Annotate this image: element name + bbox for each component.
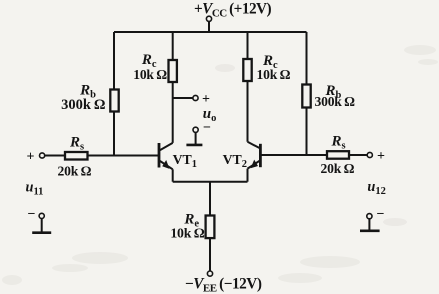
svg-text:−: −: [28, 207, 36, 222]
svg-text:10k Ω: 10k Ω: [257, 67, 291, 82]
svg-text:+VCC (+12V): +VCC (+12V): [194, 0, 272, 19]
svg-text:300k Ω: 300k Ω: [315, 94, 356, 109]
svg-text:−: −: [377, 207, 385, 222]
svg-text:+: +: [27, 149, 35, 164]
svg-text:+: +: [202, 92, 210, 107]
svg-text:20k Ω: 20k Ω: [321, 161, 355, 176]
svg-text:20k Ω: 20k Ω: [58, 163, 92, 178]
svg-text:10k Ω: 10k Ω: [133, 67, 167, 82]
svg-text:+: +: [377, 149, 385, 164]
svg-text:300k Ω: 300k Ω: [61, 97, 105, 113]
svg-text:−: −: [203, 121, 211, 136]
svg-text:−VEE (−12V): −VEE (−12V): [185, 275, 262, 294]
svg-text:10k Ω: 10k Ω: [170, 226, 204, 241]
